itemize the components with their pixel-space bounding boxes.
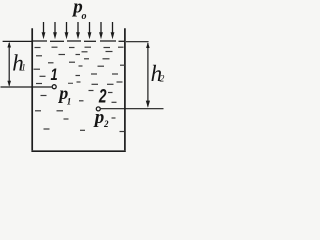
node 1 level line xyxy=(1,86,52,88)
arrow 3 xyxy=(66,22,68,34)
vessel walls xyxy=(31,28,125,151)
node 2 level line xyxy=(101,108,164,110)
svg-text:1: 1 xyxy=(67,97,72,107)
pressure arrows on surface xyxy=(42,22,115,39)
svg-text:2: 2 xyxy=(98,85,107,107)
arrow 5 xyxy=(89,22,91,34)
arrow 2 xyxy=(54,22,56,34)
h2 dimension arrow (double headed) xyxy=(146,42,150,108)
arrow 1 xyxy=(43,22,45,34)
arrow 7 xyxy=(112,22,114,34)
liquid surface (long dashes) xyxy=(33,40,124,42)
arrow 4 xyxy=(77,22,79,34)
svg-text:2: 2 xyxy=(103,119,109,129)
h1 dimension arrow (double headed) xyxy=(7,42,11,87)
node 1 circle xyxy=(52,85,56,89)
hydrostatic pressure diagram xyxy=(0,0,175,156)
svg-text:o: o xyxy=(82,11,87,22)
h1 top reference line xyxy=(3,40,32,42)
svg-text:2: 2 xyxy=(160,74,165,84)
svg-text:1: 1 xyxy=(51,66,58,84)
node 2 circle xyxy=(96,107,100,111)
arrow 6 xyxy=(100,22,102,34)
liquid dashes xyxy=(34,47,126,131)
svg-text:1: 1 xyxy=(21,63,26,73)
svg-text:p: p xyxy=(93,107,105,128)
h2 top reference line xyxy=(126,41,149,43)
